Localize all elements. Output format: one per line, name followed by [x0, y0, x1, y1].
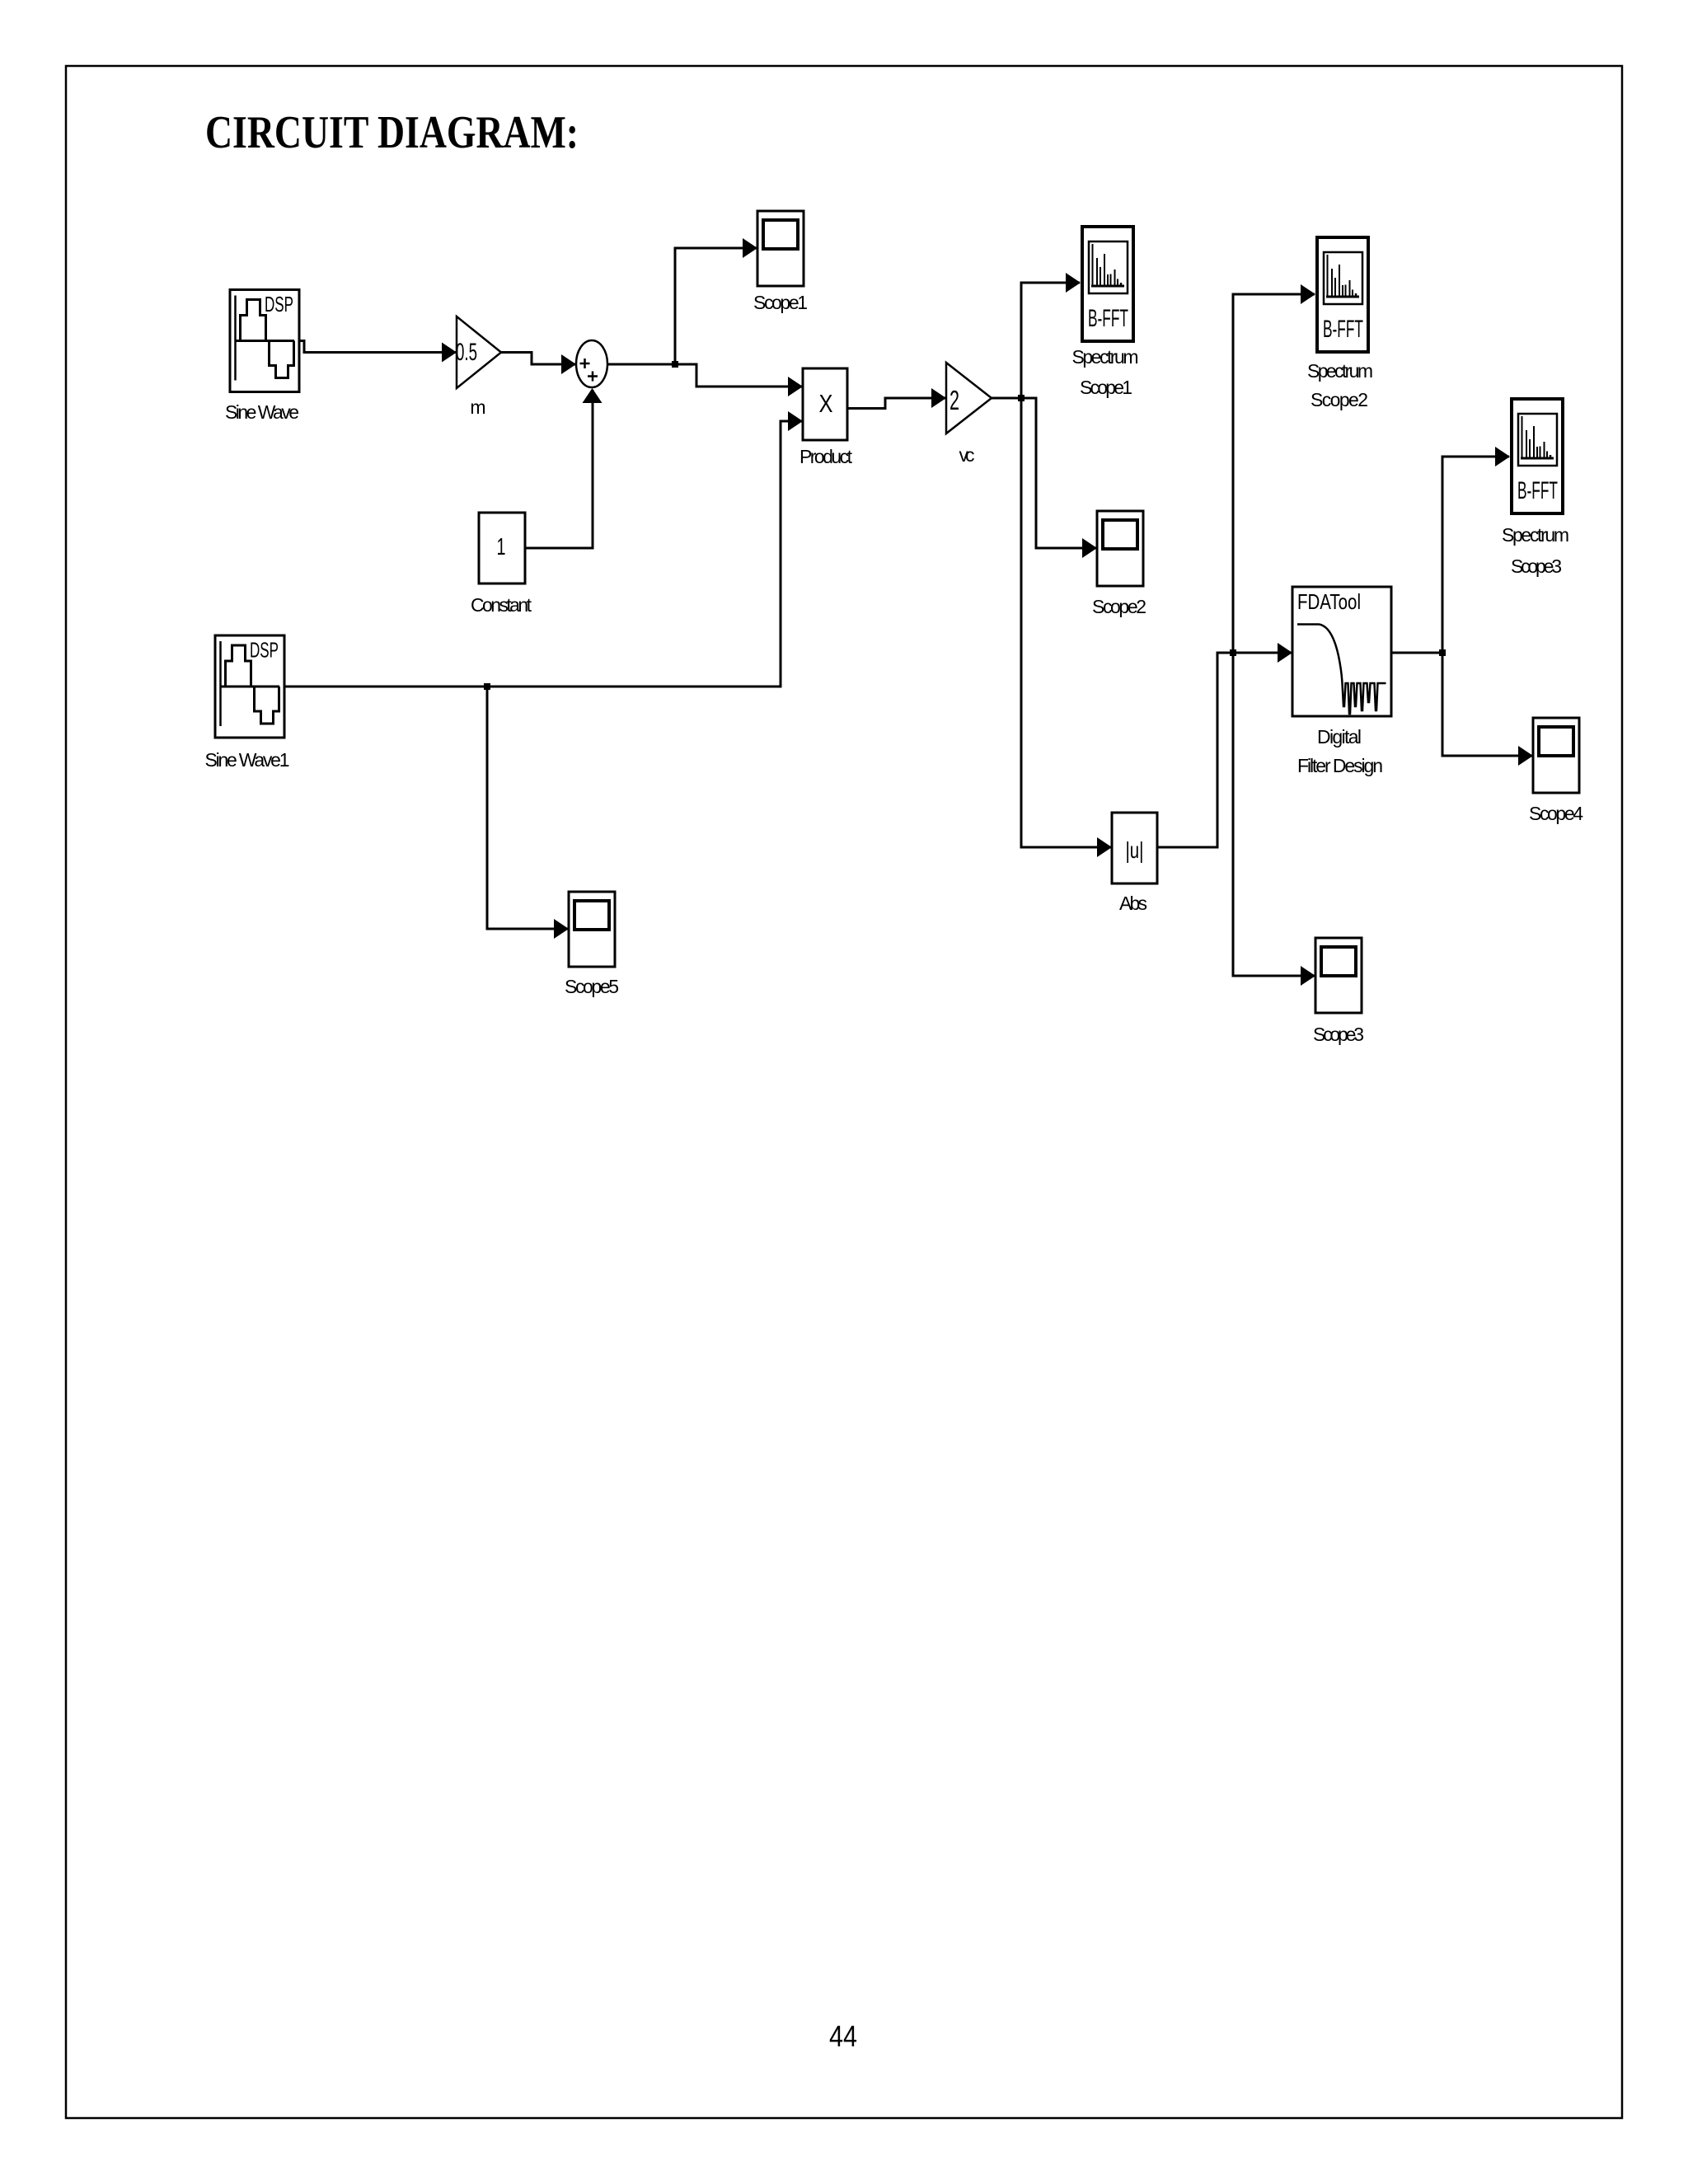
svg-text:Sine Wave: Sine Wave: [225, 401, 299, 423]
svg-text:Scope5: Scope5: [565, 976, 619, 997]
svg-text:Constant: Constant: [471, 594, 532, 616]
svg-text:Scope2: Scope2: [1092, 596, 1146, 617]
svg-text:Spectrum: Spectrum: [1307, 360, 1373, 382]
svg-text:CIRCUIT DIAGRAM:: CIRCUIT DIAGRAM:: [205, 107, 579, 158]
svg-text:vc: vc: [959, 444, 975, 466]
svg-text:Scope3: Scope3: [1313, 1024, 1364, 1045]
svg-text:Scope3: Scope3: [1511, 555, 1562, 577]
svg-text:Scope4: Scope4: [1529, 803, 1583, 824]
svg-text:m: m: [470, 396, 485, 418]
svg-text:Spectrum: Spectrum: [1502, 524, 1569, 546]
svg-text:Scope1: Scope1: [753, 292, 808, 313]
svg-text:Digital: Digital: [1317, 726, 1362, 748]
svg-text:Sine Wave1: Sine Wave1: [205, 749, 290, 771]
svg-text:2: 2: [949, 385, 959, 415]
svg-text:44: 44: [829, 2019, 857, 2053]
svg-text:Scope2: Scope2: [1311, 389, 1368, 410]
svg-text:X: X: [819, 389, 833, 418]
svg-text:Scope1: Scope1: [1080, 377, 1132, 398]
svg-text:|u|: |u|: [1126, 837, 1144, 863]
svg-text:1: 1: [497, 534, 506, 560]
svg-text:FDATool: FDATool: [1297, 589, 1361, 614]
svg-text:Abs: Abs: [1119, 893, 1147, 914]
svg-text:Product: Product: [799, 446, 853, 467]
svg-text:Spectrum: Spectrum: [1072, 346, 1139, 368]
svg-text:0.5: 0.5: [456, 339, 477, 366]
svg-text:Filter Design: Filter Design: [1297, 755, 1383, 776]
